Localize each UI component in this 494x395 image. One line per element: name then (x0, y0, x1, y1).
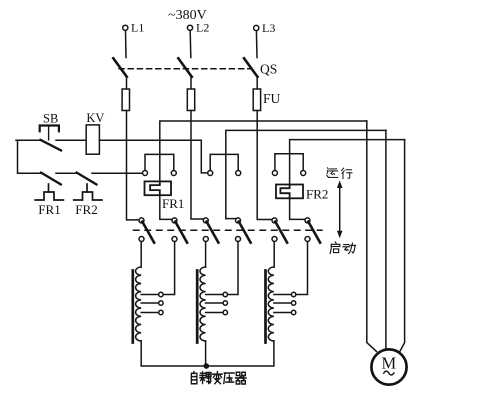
junction dot common (204, 341, 210, 369)
run contact pair 2 bridge (210, 154, 238, 170)
wire between FR contacts (56, 172, 77, 174)
transformer T2 winding (200, 267, 206, 341)
node L3 terminal (254, 21, 276, 35)
fuse FU pole 1 (122, 89, 129, 111)
svg-text:~380V: ~380V (168, 8, 207, 23)
wire phase L3 vertical to start contact 5 (257, 111, 272, 220)
transformer T3 core (264, 271, 267, 343)
transformer T2 tap 1 (206, 292, 228, 296)
svg-text:QS: QS (260, 62, 277, 77)
wire H3 coil output to run pair 2 (99, 140, 207, 173)
FR2 release element (74, 184, 102, 200)
transformer T3 tap 2 (274, 301, 296, 305)
start contact 6 (305, 218, 320, 243)
transformer T1 tap 3 (141, 310, 163, 314)
svg-text:L3: L3 (262, 21, 275, 35)
transformer T1 core (131, 271, 134, 343)
wire transformer common bottom (141, 341, 274, 366)
transformer T3 tap 1 (274, 292, 296, 296)
label motor tilde (384, 371, 394, 375)
wire L1 drop to switch (125, 31, 128, 58)
start contact 4 (236, 218, 251, 243)
transformer T3 tap 3 (274, 310, 296, 314)
svg-text:SB: SB (43, 112, 58, 126)
wire heater FR1 to start contact 2 (160, 195, 172, 219)
heater FR1 element (145, 181, 172, 195)
wire L2 switch to fuse (190, 77, 192, 111)
wire to run pair 1 left (92, 172, 143, 174)
start contact 3 (203, 218, 218, 243)
switch QS pole 2 blade (178, 58, 192, 77)
fuse FU pole 2 (187, 89, 194, 111)
label char zi (autotransformer) (191, 372, 197, 384)
label char ya (autotransformer) (224, 373, 234, 383)
pushbutton SB cap (40, 126, 59, 140)
transformer T1 tap 1 (141, 292, 163, 296)
label char ou (autotransformer) (200, 372, 211, 384)
start linkage dashed (134, 229, 323, 231)
wire contact1 to T1 winding (140, 242, 142, 268)
transformer T2 tap 3 (206, 310, 228, 314)
wire H4 run branch 3 to motor line 3 (290, 140, 405, 185)
wire contact2 to T1 tap (163, 242, 175, 295)
start contact 2 (172, 218, 187, 243)
svg-text:FR1: FR1 (162, 196, 184, 211)
start contact 1 (139, 218, 154, 243)
run contact pair 2 terminals (208, 171, 241, 176)
label char yun (run) (327, 168, 338, 178)
run contact pair 3 bridge (275, 154, 303, 171)
motor feed line 3 (400, 140, 405, 352)
pushbutton SB NC contact (16, 140, 86, 151)
label char dong (start) (343, 243, 356, 253)
motor feed line 1 (367, 121, 377, 352)
switch QS pole 1 blade (113, 58, 127, 77)
label char bian (autotransformer) (213, 372, 223, 384)
start contact 5 (272, 218, 287, 243)
svg-text:FU: FU (263, 91, 281, 106)
relay coil KV (86, 125, 99, 154)
wire L3 drop to switch (255, 31, 258, 58)
wire contact4 to T2 tap (228, 242, 239, 295)
run contact pair 3 terminals (272, 171, 305, 176)
wire L3 switch to fuse (256, 77, 258, 111)
wire start contact 4 feed (226, 218, 236, 220)
QS linkage dashed (119, 68, 252, 70)
contact FR2 NC blade (77, 173, 97, 185)
transformer T2 tap 2 (206, 301, 228, 305)
wire phase L1 vertical to start contact 1 (127, 111, 140, 220)
heater FR2 element (276, 185, 303, 199)
fuse FU pole 3 (253, 89, 260, 111)
wire control loop left side (18, 140, 42, 173)
arrow run/start (337, 181, 343, 239)
wire L1 switch to fuse (126, 77, 128, 111)
contact FR1 NC blade (41, 173, 61, 185)
transformer T2 core (196, 271, 199, 343)
FR1 release element (35, 184, 63, 200)
label char qi4 (autotransformer) (236, 372, 247, 384)
run contact pair 1 bridge (145, 154, 174, 170)
motor M circle (371, 349, 406, 384)
run contact pair 1 terminals (143, 171, 177, 176)
svg-text:FR2: FR2 (75, 202, 97, 217)
svg-text:L1: L1 (131, 21, 144, 35)
wire H1 run branch 1 to motor line 1 (160, 121, 367, 181)
motor feed line 2 (385, 130, 387, 349)
wire contact3 to T2 winding (205, 242, 207, 268)
label char qi (start) (330, 242, 340, 253)
transformer T1 tap 2 (141, 301, 163, 305)
node L2 terminal (187, 21, 209, 35)
label char xing (run) (342, 168, 353, 179)
wire contact5 to T3 winding (273, 242, 275, 268)
node L1 terminal (123, 21, 145, 35)
svg-text:KV: KV (86, 111, 104, 125)
svg-text:FR2: FR2 (306, 187, 328, 202)
wire heater FR2 to start contact 6 (290, 198, 305, 219)
wire H2 run branch 2 to motor line 2 (226, 130, 386, 218)
transformer T3 winding (268, 267, 274, 341)
switch QS pole 3 blade (244, 58, 258, 77)
wire L2 drop to switch (189, 31, 192, 58)
svg-text:M: M (381, 354, 396, 373)
transformer T1 winding (136, 267, 142, 341)
svg-text:FR1: FR1 (38, 202, 60, 217)
wire phase L2 vertical to start contact 3 (191, 111, 203, 220)
wire contact6 to T3 tap (296, 242, 308, 295)
